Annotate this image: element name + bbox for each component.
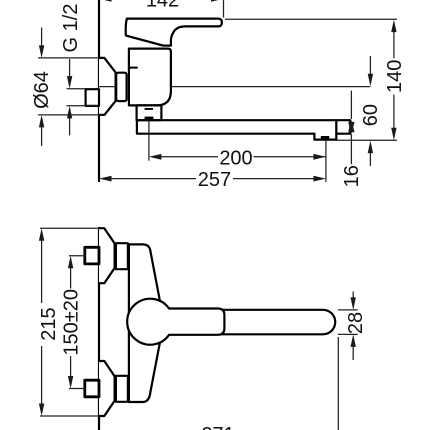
dim 28 arrow shafts: [352, 292, 354, 361]
ext line spout pivot: [148, 121, 150, 161]
dim 16 line: [350, 91, 352, 165]
svg-text:142: 142: [146, 0, 179, 12]
faucet body (side view): [129, 49, 171, 106]
ext lines 28: [338, 310, 358, 335]
svg-text:150±20: 150±20: [60, 289, 82, 356]
ext lines 150: [69, 256, 86, 389]
svg-text:215: 215: [38, 307, 60, 340]
neck notch lower: [145, 117, 154, 119]
spout tube (side view): [137, 120, 336, 134]
aerator dark notch: [321, 136, 330, 140]
spout (plan view): [166, 310, 335, 335]
nipple plan bottom: [85, 380, 99, 397]
arrows dim 60: [368, 74, 373, 87]
nipple plan top: [85, 247, 99, 264]
ext line aerator bottom right: [337, 139, 398, 141]
ext line outlet axis: [325, 140, 327, 182]
dim 142 line: [99, 0, 224, 18]
svg-text:28: 28: [345, 312, 367, 334]
nut (side view): [116, 73, 126, 101]
svg-text:257: 257: [198, 169, 231, 191]
nut plan top: [116, 243, 128, 269]
arrows dim 150: [68, 256, 73, 269]
escutcheon plan bottom: [99, 361, 115, 416]
ext line handle top right: [225, 18, 397, 20]
neck notch upper: [145, 108, 153, 110]
wall line (plan view): [98, 228, 100, 430]
dim 140 line: [393, 30, 395, 130]
arrows dim 28: [351, 297, 356, 310]
arrows dim 215: [39, 228, 44, 241]
mounting plate body (plan view): [129, 244, 160, 402]
body tick: [129, 67, 137, 69]
ext lines G 1/2: [67, 89, 99, 106]
arrows G 1/2: [67, 76, 72, 89]
arrows dia 64: [39, 45, 44, 58]
dim 257 line: [109, 178, 315, 180]
spout end cap (side view): [336, 120, 350, 134]
arrows dim 200: [149, 154, 162, 160]
spout joint neck (side view): [137, 105, 162, 120]
svg-text:271: 271: [201, 424, 234, 430]
G 1/2 nipple (side view): [86, 89, 99, 106]
escutcheon plan top: [99, 228, 115, 283]
nut plan bottom: [116, 376, 128, 402]
arrows dim 16 bowtie: [348, 120, 354, 132]
ext line bottom right: [337, 337, 339, 430]
svg-text:16: 16: [341, 165, 363, 187]
dim 150 line: [70, 265, 72, 379]
dim dia64 arrow shafts: [41, 28, 43, 147]
arrows dim 140: [391, 20, 396, 32]
handle lever and cap (side view): [126, 19, 222, 46]
dim G1/2 arrow shafts: [69, 59, 71, 135]
arrows dim 257: [99, 176, 112, 182]
dim 200 line: [159, 156, 326, 158]
svg-text:G 1/2: G 1/2: [60, 4, 82, 53]
wall line (side view): [98, 0, 100, 181]
dim 215 line: [41, 238, 43, 406]
svg-text:140: 140: [384, 60, 406, 93]
ext lines 215: [40, 228, 99, 416]
ext lines for diameter 64: [38, 58, 102, 115]
aerator (side view): [314, 134, 336, 140]
dome and handle arm (plan view): [127, 299, 224, 345]
escutcheon (side view): [99, 58, 116, 115]
svg-text:200: 200: [219, 147, 252, 169]
svg-text:Ø64: Ø64: [31, 71, 53, 109]
svg-text:60: 60: [360, 104, 382, 126]
centerline of wall connection: [99, 86, 370, 88]
arrows dim 142: [99, 0, 112, 2]
dim 60 arrow shafts: [369, 56, 371, 166]
